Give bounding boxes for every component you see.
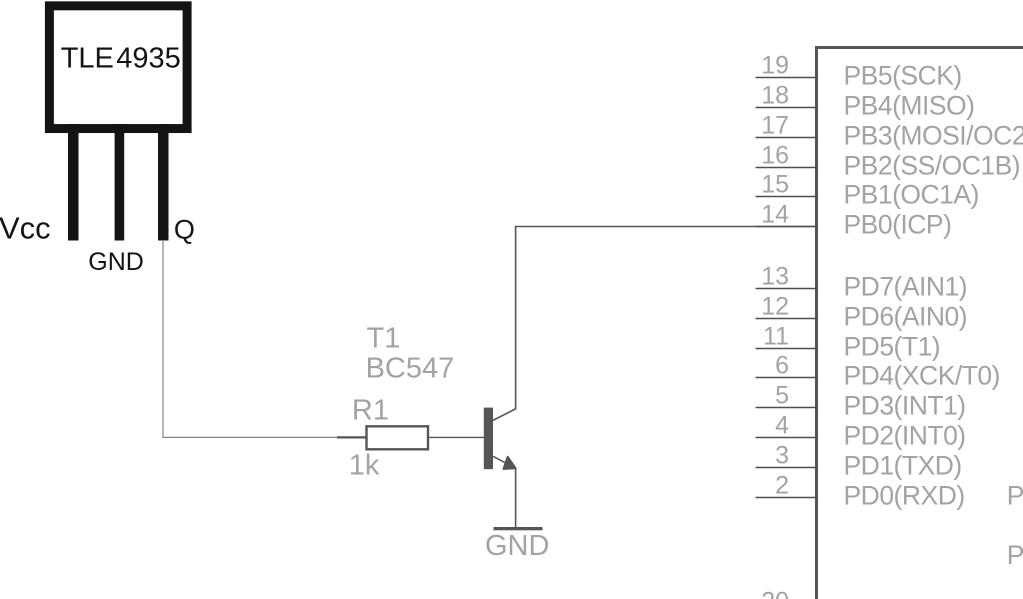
pin 6 line: [756, 377, 818, 379]
svg-text:Vcc: Vcc: [0, 211, 51, 246]
ground bar: [494, 527, 543, 530]
pin 4 line: [756, 437, 818, 439]
svg-text:T1: T1: [367, 322, 401, 354]
svg-text:Q: Q: [174, 215, 195, 245]
transistor T1 base bar: [484, 408, 493, 470]
svg-text:11: 11: [763, 323, 789, 351]
svg-text:1k: 1k: [349, 449, 380, 481]
svg-text:17: 17: [761, 112, 789, 140]
svg-text:12: 12: [761, 293, 789, 321]
svg-text:PD2(INT0): PD2(INT0): [844, 421, 966, 451]
svg-text:BC547: BC547: [366, 352, 455, 384]
svg-text:PD4(XCK/T0): PD4(XCK/T0): [844, 361, 1000, 391]
svg-text:5: 5: [775, 382, 789, 410]
wire Q to R1: [163, 240, 341, 437]
pin 3 line: [756, 467, 818, 469]
svg-text:PD0(RXD): PD0(RXD): [844, 481, 965, 511]
svg-text:PD1(TXD): PD1(TXD): [844, 451, 962, 481]
wire collector to IC pin 14: [516, 226, 817, 228]
wire R1 left stub: [337, 436, 366, 438]
svg-text:GND: GND: [485, 530, 549, 562]
svg-text:PB3(MOSI/OC2): PB3(MOSI/OC2): [844, 121, 1023, 151]
svg-text:4: 4: [775, 412, 789, 440]
pin 11 line: [756, 348, 818, 350]
pin 19 line: [756, 77, 818, 79]
transistor T1 collector lead: [493, 226, 516, 421]
svg-text:PB2(SS/OC1B): PB2(SS/OC1B): [844, 151, 1021, 181]
svg-text:R1: R1: [352, 394, 389, 426]
svg-text:PD6(AIN0): PD6(AIN0): [844, 302, 968, 332]
svg-text:6: 6: [775, 352, 789, 380]
svg-text:19: 19: [761, 52, 789, 80]
resistor R1 body: [367, 426, 429, 449]
svg-text:PD5(T1): PD5(T1): [844, 332, 941, 362]
svg-text:20: 20: [761, 587, 789, 599]
svg-text:GND: GND: [88, 248, 144, 276]
svg-text:18: 18: [761, 82, 789, 110]
pin 16 line: [756, 167, 818, 169]
transistor T1 emitter arrow: [504, 457, 516, 469]
svg-text:PD7(AIN1): PD7(AIN1): [844, 272, 968, 302]
sensor pin leg 1 (Vcc): [68, 124, 79, 241]
pin 13 line: [756, 288, 818, 290]
wire R1 to base of T1: [428, 436, 484, 438]
pin 5 line: [756, 407, 818, 409]
pin 14 line: [756, 226, 818, 228]
svg-text:PB5(SCK): PB5(SCK): [844, 61, 962, 91]
pin 17 line: [756, 137, 818, 139]
sensor TLE4935 body: [49, 6, 187, 129]
svg-text:PB0(ICP): PB0(ICP): [844, 210, 952, 240]
transistor T1 emitter lead: [493, 456, 516, 528]
svg-text:14: 14: [761, 201, 789, 229]
pin 12 line: [756, 318, 818, 320]
svg-text:2: 2: [775, 472, 789, 500]
svg-text:TLE4935: TLE4935: [61, 42, 181, 74]
pin 2 line: [756, 497, 818, 499]
svg-text:P: P: [1007, 540, 1023, 570]
IC U1 body (microcontroller, clipped at right/bottom): [817, 48, 1023, 599]
pin 18 line: [756, 107, 818, 109]
sensor pin leg 3 (Q): [158, 124, 169, 241]
svg-text:PD3(INT1): PD3(INT1): [844, 391, 966, 421]
svg-text:15: 15: [761, 171, 789, 199]
svg-text:PB4(MISO): PB4(MISO): [844, 91, 975, 121]
sensor pin leg 2 (GND): [115, 124, 125, 241]
svg-text:16: 16: [761, 142, 789, 170]
svg-text:PB1(OC1A): PB1(OC1A): [844, 180, 979, 210]
svg-text:3: 3: [775, 442, 789, 470]
svg-text:13: 13: [761, 263, 789, 291]
pin 15 line: [756, 196, 818, 198]
svg-text:P: P: [1007, 481, 1023, 511]
